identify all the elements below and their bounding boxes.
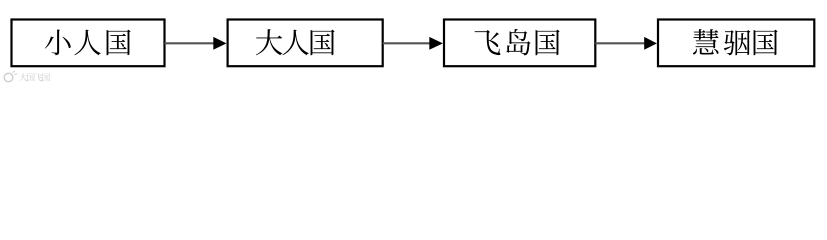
arrow 2 (383, 37, 443, 50)
arrow 1 (165, 37, 227, 50)
text feidaoguo 飞岛国 (475, 29, 560, 55)
watermark text (19, 73, 50, 81)
box huiyinguo (658, 20, 814, 67)
text xiaorenguo 小人国 (45, 29, 131, 55)
text darenguo 大人国 (256, 29, 335, 55)
box feidaoguo (444, 20, 595, 67)
arrow 3 (595, 37, 657, 50)
watermark logo (4, 71, 17, 82)
box darenguo (228, 20, 383, 67)
box xiaorenguo (12, 20, 165, 67)
text huiyinguo 慧骃国 (693, 29, 778, 55)
